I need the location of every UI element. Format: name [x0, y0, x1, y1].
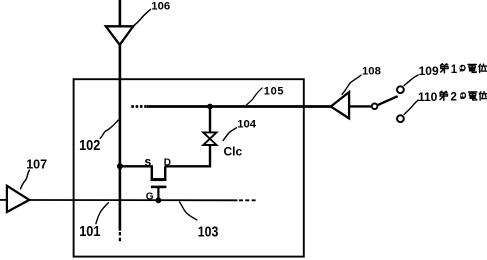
svg-text:D: D	[164, 157, 171, 168]
leader line to 108	[342, 75, 362, 95]
wire: common line 105	[147, 105, 331, 108]
label 101	[79, 222, 100, 239]
buffer amplifier 107 (triangle pointing right)	[7, 186, 29, 212]
transistor 103 channel (source wire, U dip, drain wire)	[120, 166, 165, 179]
switch pole terminal (circle)	[372, 104, 378, 110]
svg-text:101: 101	[79, 222, 100, 239]
wire: data line 102 above buffer	[119, 0, 122, 27]
pixel boundary box	[74, 79, 304, 256]
kanji i (line 2)	[479, 92, 487, 100]
node: junction dot of capacitor on line 105	[207, 104, 213, 110]
wire: gate line 101 dashed right end	[239, 199, 258, 201]
leader line to 106	[133, 9, 151, 26]
svg-text:104: 104	[237, 118, 257, 130]
svg-text:s: s	[144, 155, 151, 169]
kanji den (line 1)	[468, 64, 476, 72]
kanji den (line 2)	[468, 92, 476, 100]
leader line to 103	[179, 202, 197, 221]
svg-text:109: 109	[419, 64, 439, 78]
leader line to 110	[404, 100, 419, 115]
wire: data line 102 dashed lower end	[119, 232, 121, 242]
leader line to 104	[223, 127, 237, 141]
capacitor 104 Clc (bowtie lower triangle)	[203, 139, 216, 145]
node: junction dot of gate on line 101	[156, 197, 162, 203]
leader line to 107	[20, 170, 29, 190]
svg-text:Clc: Clc	[224, 144, 243, 158]
leader line to 105	[246, 88, 263, 106]
switch contact 109 (circle)	[397, 86, 404, 93]
transistor 103 gate stub	[157, 187, 159, 200]
leader line to 109	[404, 75, 419, 86]
kanji i (line 1)	[479, 64, 487, 72]
wire: common line 105 dashed left end	[131, 105, 148, 108]
svg-text:103: 103	[198, 223, 219, 239]
kanji dai (line 2)	[440, 91, 448, 100]
kanji dai (line 1)	[440, 64, 448, 73]
svg-text:106: 106	[151, 1, 170, 13]
wire: capacitor bottom lead down and left to drain	[165, 145, 210, 166]
switch contact 110 (circle)	[397, 115, 404, 122]
svg-text:102: 102	[79, 136, 100, 153]
wire: input stub of 107	[0, 199, 7, 201]
svg-text:110: 110	[418, 90, 438, 104]
node: junction dot of source wire on line 102	[117, 163, 123, 169]
svg-text:2: 2	[451, 91, 457, 103]
kanji no (line 1)	[459, 65, 465, 72]
svg-text:105: 105	[264, 85, 284, 97]
buffer amplifier 108 (triangle pointing left)	[331, 92, 349, 118]
leader line to 101	[96, 202, 109, 224]
wire: gate line 101	[29, 199, 237, 201]
transistor 103 gate electrode bar	[151, 186, 167, 189]
svg-text:108: 108	[362, 66, 381, 78]
wire: data line 102 vertical (solid part)	[119, 45, 122, 231]
svg-text:1: 1	[451, 64, 458, 76]
label 102	[79, 136, 100, 153]
kanji no (line 2)	[460, 92, 466, 99]
wire: from 108 output to switch pole	[349, 105, 372, 107]
leader line to 102	[100, 120, 119, 139]
label 103	[198, 223, 219, 239]
transistor 103 thick channel bar	[151, 178, 167, 181]
wire: capacitor top lead	[209, 107, 211, 134]
switch arm	[377, 96, 397, 105]
buffer amplifier 106 (triangle pointing down)	[106, 26, 133, 45]
capacitor 104 Clc (bowtie upper triangle)	[203, 132, 216, 138]
